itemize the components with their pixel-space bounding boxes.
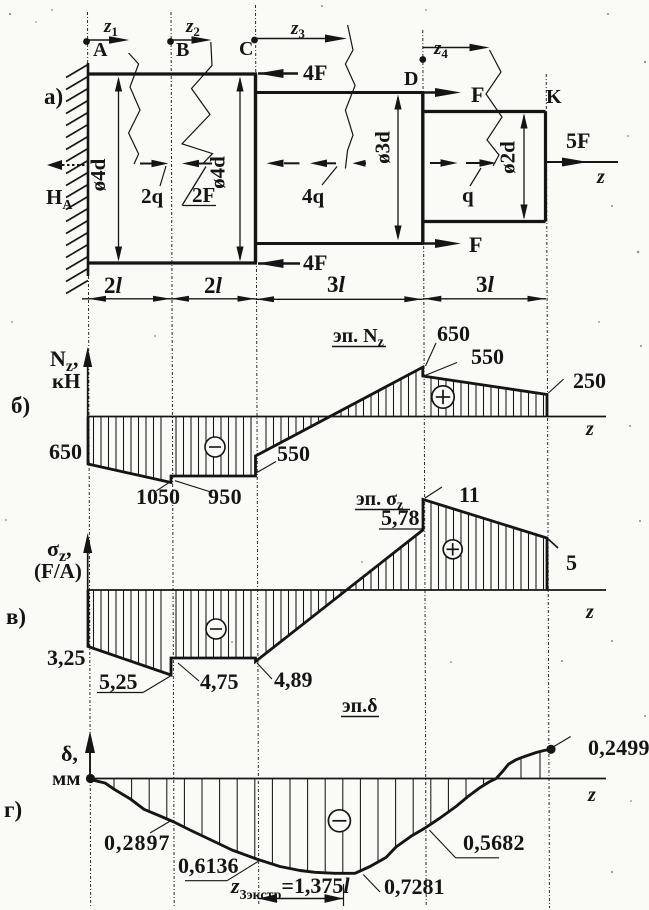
svg-text:4,75: 4,75 (200, 669, 239, 694)
break wavy line for z4 (486, 50, 502, 166)
value 550 mid with leader (257, 462, 276, 473)
svg-text:ø4d: ø4d (206, 156, 230, 189)
svg-text:мм: мм (52, 766, 81, 790)
distributed load 2q arrow (140, 163, 155, 165)
svg-text:ø4d: ø4d (86, 158, 110, 191)
svg-text:F: F (469, 232, 482, 257)
svg-text:2q: 2q (141, 184, 164, 208)
coordinate z4 arrow (423, 47, 483, 49)
value 1050 with leader (156, 481, 172, 491)
z extremum dimension arrows (259, 898, 344, 900)
force 2F arrow (189, 163, 212, 165)
dimension line 3l (DK) (423, 298, 546, 300)
leader slash for 2F (182, 167, 206, 206)
value 550 right with leader (425, 363, 457, 376)
Nz diagram outline (88, 367, 547, 482)
svg-text:F: F (471, 82, 484, 107)
svg-text:г): г) (4, 797, 22, 822)
node line A (vertical reference) (88, 12, 91, 906)
value 11 with leader (425, 487, 442, 498)
delta curve (90, 749, 551, 873)
node dot A (83, 38, 90, 45)
leader for q (470, 168, 481, 186)
svg-text:0,6136: 0,6136 (178, 853, 239, 878)
svg-text:z: z (585, 601, 594, 623)
sigma z axis (88, 589, 606, 591)
svg-text:5,78: 5,78 (381, 505, 420, 530)
z extremum tick (343, 884, 345, 906)
svg-text:(F/A): (F/A) (34, 559, 82, 583)
svg-text:950: 950 (208, 484, 242, 509)
svg-text:z3: z3 (290, 18, 305, 41)
wall edge (87, 63, 90, 276)
break wavy line for z2 (182, 42, 213, 164)
value 650 right with leader (426, 343, 437, 366)
reaction HA dotted arrow (62, 164, 85, 166)
svg-text:0,5682: 0,5682 (463, 830, 525, 855)
coordinate z1 arrow (88, 39, 124, 41)
svg-text:D: D (404, 68, 418, 90)
svg-text:z2: z2 (185, 16, 200, 39)
sigma overshoot tail (547, 538, 558, 548)
distributed load 4q arrows (284, 162, 300, 164)
break wavy line for z1 (129, 53, 140, 164)
value 0,5682 with bent leader (429, 830, 455, 858)
dimension diameter 4d (segment AB) (118, 79, 120, 259)
dimension diameter 4d (segment BC) (239, 79, 241, 259)
bar segment CD (diameter 3d) outline (256, 91, 425, 94)
leader for 2q (160, 166, 166, 186)
svg-text:z: z (587, 784, 596, 806)
break wavy line for z3 (345, 25, 355, 169)
minus sign circle (delta) (328, 810, 350, 832)
svg-text:B: B (176, 39, 189, 61)
Nz z axis (88, 416, 606, 418)
sigma diagram outline (88, 499, 547, 675)
wall hatching (66, 65, 88, 294)
plus sign circle (Nz) (432, 386, 454, 408)
node line B (vertical reference) (171, 12, 174, 906)
svg-text:ø2d: ø2d (496, 141, 520, 174)
minus sign circle (sigma) (206, 619, 226, 639)
svg-text:z: z (585, 418, 594, 440)
value 950 with leader (175, 481, 212, 493)
delta hatching above axis (520, 758, 522, 779)
svg-text:5: 5 (566, 550, 577, 575)
node line K (vertical reference) (546, 74, 549, 908)
bar segment AC (diameter 4d) outline (87, 72, 257, 75)
svg-text:кН: кН (52, 369, 80, 393)
svg-text:q: q (462, 183, 474, 207)
svg-text:2l: 2l (104, 273, 123, 298)
delta end dot (546, 745, 555, 754)
coordinate z2 arrow (171, 39, 205, 41)
svg-text:5F: 5F (566, 128, 590, 153)
force F top arrow (423, 91, 448, 94)
dimension line 2l 2l (82, 298, 256, 300)
svg-text:11: 11 (459, 482, 480, 507)
svg-text:0,2499: 0,2499 (588, 735, 649, 760)
svg-text:4F: 4F (303, 60, 327, 85)
minus sign circle (Nz) (205, 437, 225, 457)
svg-text:1050: 1050 (136, 484, 180, 509)
svg-text:ø3d: ø3d (371, 131, 395, 164)
svg-text:z1: z1 (103, 16, 118, 39)
svg-text:3,25: 3,25 (47, 645, 86, 670)
value 0,7281 with leader (363, 875, 380, 893)
force 4F bottom arrow (258, 262, 300, 265)
value 0,2897 with leader (150, 820, 172, 833)
svg-text:4F: 4F (303, 250, 327, 275)
delta z axis (87, 778, 606, 780)
svg-text:550: 550 (471, 344, 504, 369)
node line D (vertical reference) (423, 30, 426, 906)
node line C (vertical reference) (256, 5, 259, 906)
svg-text:z: z (596, 166, 605, 188)
coordinate z3 arrow (256, 38, 341, 40)
dimension diameter 2d (523, 115, 525, 218)
sigma diagram axis vertical (87, 538, 89, 591)
svg-text:в): в) (6, 604, 26, 629)
svg-text:0,7281: 0,7281 (384, 874, 445, 899)
svg-text:3l: 3l (476, 272, 495, 297)
svg-text:б): б) (11, 393, 30, 418)
svg-text:K: K (546, 86, 562, 108)
svg-text:5,25: 5,25 (99, 669, 138, 694)
svg-text:650: 650 (437, 321, 470, 346)
svg-text:а): а) (44, 84, 63, 109)
svg-text:650: 650 (49, 439, 82, 464)
svg-text:эп.δ: эп.δ (342, 695, 378, 717)
svg-text:550: 550 (277, 441, 310, 466)
Nz diagram axis vertical (87, 352, 89, 417)
svg-text:4q: 4q (302, 184, 325, 208)
distributed load q arrows (430, 162, 451, 164)
delta diagram axis vertical (89, 739, 91, 779)
delta hatching below axis (114, 779, 484, 874)
svg-text:2l: 2l (204, 273, 223, 298)
Nz hatching (94, 371, 544, 481)
dimension line 3l (CD) (256, 298, 423, 300)
force 5F arrow with z axis (546, 161, 619, 163)
node dot D (419, 56, 426, 63)
bar segment DK (diameter 2d) outline (423, 110, 546, 113)
value 0,2499 with leader (551, 737, 570, 749)
svg-text:0,2897: 0,2897 (104, 830, 171, 855)
svg-text:HA: HA (46, 185, 73, 213)
plus sign circle (sigma) (443, 540, 462, 559)
svg-text:C: C (239, 38, 253, 60)
value 4,89 with leader (257, 663, 272, 679)
node dot B (167, 38, 174, 45)
value 4,75 with leader (178, 663, 199, 681)
node dot C (251, 37, 258, 44)
svg-text:z4: z4 (433, 38, 448, 61)
value 250 with leader (548, 379, 563, 393)
svg-text:250: 250 (573, 368, 606, 393)
svg-text:δ,: δ, (61, 741, 78, 766)
svg-text:3l: 3l (327, 272, 346, 297)
leader for 4q (322, 167, 337, 186)
dimension diameter 3d (397, 97, 399, 238)
force F bottom arrow (423, 242, 448, 245)
force 4F top arrow (258, 72, 298, 75)
svg-text:A: A (93, 39, 108, 61)
sigma hatching (94, 502, 544, 672)
delta start dot (86, 774, 95, 783)
svg-text:4,89: 4,89 (274, 667, 313, 692)
